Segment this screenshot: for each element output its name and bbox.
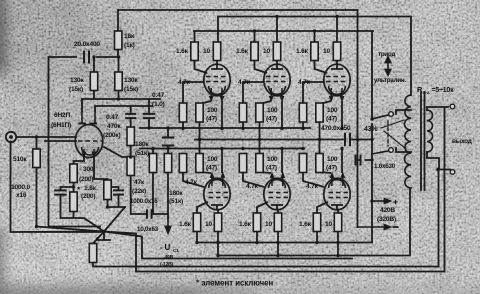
svg-text:выход: выход [452,138,472,145]
svg-text:100: 100 [327,107,338,114]
svg-text:10: 10 [205,221,212,228]
svg-text:а-а: а-а [423,91,430,96]
svg-text:С1: С1 [173,248,179,254]
svg-text:100: 100 [267,107,278,114]
svg-text:(51к): (51к) [169,198,183,205]
svg-text:1.0х630: 1.0х630 [374,163,396,170]
svg-text:* элемент исключен: * элемент исключен [196,279,273,288]
svg-text:130к: 130к [70,77,84,84]
svg-text:10: 10 [265,221,272,228]
svg-text:1000.0: 1000.0 [11,184,31,191]
svg-text:47к: 47к [134,179,145,186]
svg-text:-49В: -49В [163,255,174,261]
svg-text:(15к): (15к) [69,86,83,93]
svg-text:1.6к: 1.6к [179,221,192,228]
svg-text:(200): (200) [81,193,95,200]
svg-text:300: 300 [83,166,94,173]
svg-text:(47): (47) [206,116,217,123]
svg-text:10,0х63: 10,0х63 [137,226,159,233]
svg-text:43%: 43% [364,126,378,133]
svg-text:510к: 510к [13,156,27,163]
svg-text:130к: 130к [124,77,138,84]
svg-text:100: 100 [267,156,278,163]
svg-text:(320В): (320В) [377,216,396,223]
svg-text:4.7к: 4.7к [246,183,259,190]
svg-text:(47): (47) [326,165,337,172]
svg-text:1.6к: 1.6к [176,48,189,55]
svg-text:0.47: 0.47 [106,114,119,121]
svg-text:100: 100 [207,107,218,114]
svg-text:1000.0х16: 1000.0х16 [130,198,158,205]
svg-text:20.0х400: 20.0х400 [74,41,100,48]
svg-text:ультралин.: ультралин. [374,77,406,84]
svg-text:(6Н1П): (6Н1П) [51,122,71,129]
svg-text:10: 10 [263,48,270,55]
svg-text:(200к): (200к) [103,132,121,139]
svg-text:- U: - U [160,243,170,252]
svg-text:(47): (47) [266,116,277,123]
svg-text:(51к): (51к) [135,150,149,157]
svg-text:4.7к: 4.7к [306,183,319,190]
svg-text:(47): (47) [326,116,337,123]
svg-text:180к: 180к [169,190,183,197]
svg-text:(15к): (15к) [124,86,138,93]
svg-text:100: 100 [207,156,218,163]
svg-text:(1.0): (1.0) [152,101,165,108]
svg-text:6Н2П: 6Н2П [54,112,70,119]
svg-text:х16: х16 [16,192,27,199]
svg-text:1.6к: 1.6к [296,48,309,55]
svg-text:(47): (47) [266,165,277,172]
svg-text:0.47: 0.47 [152,92,165,99]
svg-text:10: 10 [203,48,210,55]
svg-text:(200): (200) [79,176,93,183]
svg-text:10: 10 [323,48,330,55]
svg-text:(22к): (22к) [132,188,146,195]
svg-text:470.0х450: 470.0х450 [321,125,351,132]
svg-text:+: + [393,197,398,207]
svg-text:1.8к: 1.8к [84,185,97,192]
svg-text:100: 100 [327,156,338,163]
svg-text:(1к): (1к) [124,42,135,49]
svg-text:=5÷10к: =5÷10к [432,87,455,94]
svg-text:(47): (47) [206,165,217,172]
svg-text:180к: 180к [135,141,149,148]
svg-text:4.7к: 4.7к [178,79,191,86]
svg-text:420В: 420В [380,207,395,214]
svg-text:4.7к: 4.7к [238,79,251,86]
svg-text:4.7к: 4.7к [185,179,198,186]
svg-text:18к: 18к [124,33,135,40]
svg-text:1.6к: 1.6к [299,221,312,228]
svg-text:470к: 470к [107,123,121,130]
svg-text:триод: триод [378,51,396,58]
svg-text:4.7к: 4.7к [298,79,311,86]
svg-text:1.6к: 1.6к [239,221,252,228]
svg-text:10: 10 [325,221,332,228]
svg-text:1.6к: 1.6к [236,48,249,55]
svg-text:(-12В): (-12В) [160,262,174,268]
